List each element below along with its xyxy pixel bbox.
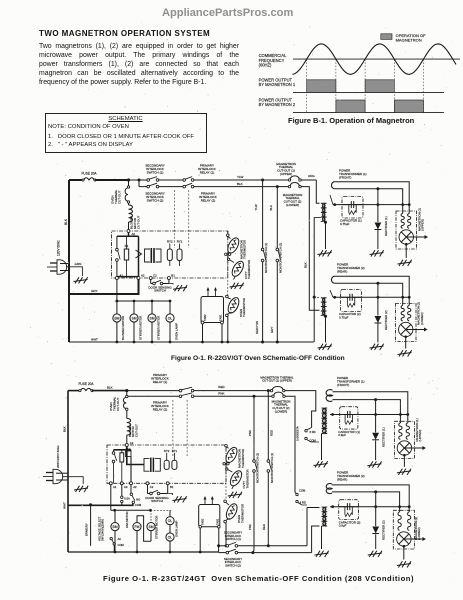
- oven lamp 1 s2: [169, 510, 171, 516]
- svg-text:C2: C2: [153, 274, 157, 278]
- wire: fan box leads to rail: [202, 324, 204, 342]
- figure B-1 axis line: [293, 58, 460, 60]
- node: T1 bottom junction: [324, 221, 327, 224]
- wire: GRN ground lead: [66, 267, 82, 276]
- svg-text:OL: OL: [168, 536, 173, 540]
- wire: rectifier 1 to ground: [377, 230, 379, 249]
- terminal C2 s2: [146, 482, 149, 485]
- svg-text:RELAY (1): RELAY (1): [153, 380, 168, 384]
- wire: down to control unit terminal A2: [128, 222, 130, 230]
- wire: thermistor column to bottom rail: [227, 317, 229, 342]
- wire: rectifier 1 s2 line: [375, 400, 377, 433]
- svg-text:(REAR): (REAR): [337, 269, 347, 273]
- svg-text:(FRONT): (FRONT): [339, 175, 351, 179]
- svg-text:0.75µF: 0.75µF: [340, 222, 350, 226]
- svg-text:BM: BM: [112, 525, 117, 529]
- wire: T2 filament lead lower: [335, 283, 403, 297]
- magnetron thermal cut-out (2) s2: [272, 395, 274, 397]
- ground: chassis ground at plug: [74, 277, 88, 283]
- figure O-1 (R-23GT/24GT) caption: [103, 574, 414, 583]
- dashed linkage relay 1 to RY coil: [174, 190, 176, 248]
- wire: A3 lead with sub-fuse: [121, 485, 123, 496]
- svg-text:(FRONT): (FRONT): [337, 383, 349, 387]
- wire: T1 s2 primary bottom to ground: [321, 434, 323, 461]
- wire: line 2 to magnetron thermal cutout 2: [277, 186, 288, 188]
- svg-text:THERMISTOR: THERMISTOR: [243, 240, 247, 259]
- magnetron 2 output pulse blocks: [336, 100, 365, 113]
- wire: ORG feed down to T1 primary: [316, 180, 319, 203]
- wire: down to A2 terminal s2: [126, 435, 128, 444]
- wire: bold feed inside control unit: [128, 233, 130, 237]
- wire: A1 down to motor rail: [116, 280, 118, 302]
- svg-text:BLK: BLK: [269, 205, 273, 211]
- svg-text:(LOWER): (LOWER): [420, 312, 424, 325]
- primary interlock relay (1) s2: [179, 389, 182, 392]
- svg-text:(REAR): (REAR): [337, 477, 347, 481]
- resistor in s2 box: [120, 453, 124, 462]
- motor BLOWER MOTOR: [116, 301, 118, 314]
- primary interlock relay (2) s2: [179, 395, 182, 398]
- schematic note box: [45, 113, 207, 153]
- oven thermistor (cavity): [230, 259, 246, 278]
- svg-text:FAN MOTOR: FAN MOTOR: [125, 511, 129, 528]
- wire: B1 lead down: [168, 280, 170, 284]
- body paragraph: [39, 42, 239, 87]
- svg-text:0.6XNS37A: 0.6XNS37A: [295, 426, 299, 441]
- ground: magnetron 1: [398, 260, 412, 266]
- svg-text:CUT-OUT (1) (UPPER): CUT-OUT (1) (UPPER): [262, 379, 292, 383]
- svg-text:RECTIFIER (1): RECTIFIER (1): [384, 216, 388, 236]
- terminal C2: [149, 277, 152, 280]
- svg-text:PNK: PNK: [218, 392, 224, 396]
- wire: column to rail s2: [225, 523, 227, 546]
- svg-text:RY1: RY1: [177, 240, 183, 244]
- svg-text:A2: A2: [141, 274, 145, 278]
- wire: rail1-up joins coil top s2: [307, 507, 320, 509]
- wire: line 1 to wire2 branch node: [129, 179, 140, 181]
- svg-text:MONITOR SWITCH (1): MONITOR SWITCH (1): [264, 243, 268, 273]
- node: s2 thermal branch: [125, 389, 128, 392]
- svg-text:RECTIFIER (2): RECTIFIER (2): [384, 310, 388, 330]
- transformer T2 s2 filament curl: [326, 484, 332, 494]
- oven lamp 2 s2: [169, 525, 171, 533]
- wire: s2 line1 to relay 1: [127, 390, 180, 392]
- terminal A1 s2: [109, 482, 112, 485]
- wire: monitor line B to rail 1: [267, 472, 269, 546]
- svg-text:(LOWER): (LOWER): [275, 409, 288, 413]
- control unit box s2 (dash-dot): [107, 445, 226, 483]
- svg-text:SH1: SH1: [126, 447, 132, 451]
- svg-text:OVEN LAMP: OVEN LAMP: [174, 323, 178, 340]
- wire: line 2 to secondary interlock switch 2: [139, 186, 147, 188]
- svg-text:ORG: ORG: [308, 174, 316, 178]
- control unit box (dash-dot): [112, 231, 228, 278]
- svg-text:WHT: WHT: [63, 502, 67, 509]
- svg-text:BLK: BLK: [107, 385, 113, 389]
- surge arrester zigzag: [136, 250, 142, 258]
- svg-text:208V/240V 60Hz: 208V/240V 60Hz: [56, 445, 60, 468]
- dashed linkage s2 relay2: [186, 400, 188, 457]
- svg-text:RY1: RY1: [172, 449, 178, 453]
- wire: left rail BLK: [68, 180, 70, 342]
- svg-text:0.9µF: 0.9µF: [338, 433, 346, 437]
- wire: magnetron 1 s2 ground lead: [403, 455, 405, 467]
- wire: T2 to ground: [325, 316, 327, 342]
- svg-text:TAB2: TAB2: [203, 314, 207, 321]
- ground: transformer 2 s2: [315, 551, 329, 557]
- ground: magnetron 2 s2: [397, 561, 411, 567]
- svg-text:SM: SM: [149, 317, 154, 321]
- wire: oven thermal cutout branch: [128, 180, 130, 186]
- wire: rectifier 1 line: [377, 189, 379, 222]
- wire: thermistor column: [227, 231, 229, 237]
- svg-text:SWITCH (2): SWITCH (2): [225, 563, 241, 567]
- wire: voltage select branch down: [90, 505, 92, 546]
- svg-text:MONITOR SWITCH (2): MONITOR SWITCH (2): [278, 243, 282, 273]
- ground: plug ground s2: [74, 486, 88, 492]
- svg-text:COM: COM: [299, 489, 306, 493]
- ground: transformer 1: [318, 250, 332, 256]
- svg-text:BLK: BLK: [304, 262, 308, 268]
- svg-text:PNK: PNK: [248, 524, 252, 530]
- motor STIRRER MOTOR s2: [150, 510, 152, 522]
- secondary interlock switch (1): [147, 179, 150, 182]
- wire: bold feed s2 box: [126, 447, 128, 450]
- wire: rectifier 2 s2 line: [375, 492, 377, 526]
- wire: rectifier 2 line: [377, 283, 379, 315]
- svg-text:CUT-OUT: CUT-OUT: [117, 191, 121, 204]
- wire: plug to rail: [60, 263, 69, 265]
- svg-text:OL: OL: [168, 317, 173, 321]
- svg-text:FM: FM: [135, 525, 140, 529]
- svg-text:SWITCH: SWITCH: [151, 499, 163, 503]
- wire: rail 2 up to T2 coil: [312, 526, 320, 553]
- plug P1 s2: [53, 469, 63, 483]
- svg-text:OL: OL: [168, 519, 173, 523]
- wire: T2 s2 primary bottom to ground: [321, 526, 323, 549]
- wire: filament lead lower to magnetron 1: [335, 189, 403, 205]
- rectifier (1) diode: [375, 223, 382, 230]
- svg-text:WHT: WHT: [91, 338, 98, 342]
- wire: main bottom rail s2: [68, 551, 219, 553]
- blower motor thermal cut-out coil: [129, 205, 133, 222]
- node: rectifier 1 s2 junction: [374, 398, 377, 401]
- wire: T2 secondary top lead: [330, 290, 333, 297]
- ground: transformer 2: [318, 344, 332, 350]
- ground: magnetron 1 s2: [397, 469, 411, 475]
- door sensing switch s2: [148, 493, 150, 495]
- monitor switch (2) s2: [253, 460, 256, 463]
- motor STIRRER MOTOR: [151, 301, 153, 314]
- blower thermal coil s2: [127, 418, 131, 435]
- oven thermistor s2: [228, 469, 244, 488]
- svg-text:RECTIFIER (1): RECTIFIER (1): [382, 427, 386, 447]
- oven thermistor lower: [226, 296, 241, 315]
- magnetron 1 output baseline: [293, 91, 444, 93]
- svg-text:CUT-OUT: CUT-OUT: [136, 216, 140, 229]
- node: s2 monitor line A branch: [253, 395, 256, 398]
- node: junction oven thermal cutout branch: [127, 178, 130, 181]
- wire: s2 thermal column: [126, 391, 128, 396]
- wire: T1 to ground: [325, 222, 327, 249]
- svg-text:RELAY (2): RELAY (2): [201, 199, 216, 203]
- wire: tap to T2 primary top: [314, 296, 319, 299]
- svg-text:FUSE 20A: FUSE 20A: [81, 172, 97, 176]
- magnetron (2) (lower): [396, 304, 417, 342]
- ground: door sensing switch: [169, 284, 173, 285]
- wire: monitor line B s2 (RED): [267, 391, 269, 460]
- wire: C2 lead down: [150, 280, 152, 284]
- terminal A2 top: [127, 230, 130, 233]
- fuse FUSE 20A: [82, 179, 84, 181]
- node: rectifier 1 junction: [376, 187, 379, 190]
- wire: magnetron 2 s2 ground lead: [403, 546, 405, 559]
- figure B-1 caption: [288, 116, 414, 125]
- fan motor assembly box: [201, 297, 224, 323]
- svg-text:CUT-OUT: CUT-OUT: [116, 398, 120, 411]
- wire: left rail s2: [67, 391, 69, 552]
- magnetron thermistor s2: [224, 446, 240, 465]
- wire: filament lines into magnetron 1: [402, 205, 404, 214]
- motor STIRRER MOTOR: [133, 301, 135, 314]
- wire: A2 bottom branch s2: [130, 457, 132, 484]
- svg-text:THERMISTOR: THERMISTOR: [240, 504, 244, 523]
- svg-text:NO: NO: [136, 498, 140, 502]
- ground: transformer 1 s2: [314, 461, 328, 467]
- node: rectifier 2 junction: [376, 282, 379, 285]
- node: T2 primary tap: [313, 296, 316, 299]
- wire: s2 line1 to thermal branch: [92, 390, 127, 392]
- svg-text:0.75µF: 0.75µF: [339, 316, 349, 320]
- wire: T2 s2 filament lower lead: [332, 492, 400, 507]
- transformer T2 s2 primary winding: [322, 507, 327, 526]
- wire: fan box to rail s2: [199, 528, 201, 552]
- secondary interlock switch (2): [147, 185, 150, 188]
- ground: rectifier 1 s2: [367, 461, 381, 467]
- capacitor C1 assembly: [342, 197, 363, 219]
- wire: monitor line A to rail 2: [253, 472, 254, 552]
- cook relay contacts NO/COM: [130, 485, 132, 493]
- magnetron (1) (upper): [396, 211, 417, 249]
- svg-text:AC: AC: [118, 537, 122, 541]
- figure O-1 (R-22GV/GT) caption: [171, 355, 345, 362]
- wire: series bridge FM-SM: [137, 516, 151, 542]
- svg-text:TAB2: TAB2: [201, 518, 205, 525]
- wire: T2 filament lead upper: [335, 276, 410, 297]
- svg-text:A2: A2: [130, 441, 134, 445]
- wire: line 1 cutout1 to transformer 1: [301, 179, 316, 181]
- low voltage transformer s2 box: [144, 458, 150, 471]
- svg-text:SW (240V)(208V): SW (240V)(208V): [101, 519, 105, 541]
- wire: branch down to line 2: [138, 180, 140, 187]
- wire: top line 1 from rail to fuse: [69, 179, 83, 181]
- primary interlock relay (1) contacts: [183, 179, 186, 182]
- svg-text:GRY: GRY: [91, 289, 98, 293]
- terminal A2 bottom: [137, 277, 140, 280]
- wire: magnetron 1 cathode to ground: [405, 244, 407, 258]
- capacitor C1 s2 assembly: [340, 407, 358, 429]
- transformer T1 s2 filament curl: [326, 390, 332, 402]
- svg-text:COM: COM: [135, 503, 142, 507]
- relay switch contacts in control unit: [116, 248, 119, 251]
- motor FAN MOTOR s2: [133, 523, 141, 531]
- wire: rail 1 continues: [238, 545, 307, 547]
- wire: line 1 fuse to junction: [95, 179, 129, 181]
- wire: GRY return from A2 to left rail: [69, 280, 139, 295]
- dashed linkage s2 relay1: [172, 400, 174, 457]
- svg-text:C2: C2: [150, 485, 154, 489]
- svg-text:THERMISTOR: THERMISTOR: [241, 449, 245, 468]
- lower thermistor s2: [224, 502, 239, 521]
- svg-text:BLOWER MOTOR: BLOWER MOTOR: [121, 316, 125, 340]
- component SH1 in s2 box: [125, 451, 131, 457]
- wire: left branch to relay switch: [116, 236, 118, 248]
- svg-text:B1: B1: [170, 485, 174, 489]
- wire: series line down to rail/T2: [313, 218, 315, 343]
- wire: motor feed rail: [117, 300, 170, 302]
- svg-text:RELAY (2): RELAY (2): [153, 408, 168, 412]
- wire: T1 secondary top lead: [330, 195, 333, 205]
- svg-text:OVEN LAMP: OVEN LAMP: [174, 521, 178, 537]
- primary interlock relay (2) contacts: [183, 185, 186, 188]
- wire: A1 to motor rail s2: [110, 485, 112, 511]
- svg-text:SWITCH (1): SWITCH (1): [225, 537, 241, 541]
- svg-text:BLK: BLK: [63, 426, 67, 432]
- wire: rail 1 up to T2 area: [306, 508, 308, 546]
- node: voltage select branch: [89, 503, 92, 506]
- svg-text:(LOWER): (LOWER): [417, 527, 421, 540]
- terminal B1 s2: [166, 482, 169, 485]
- svg-text:RY2: RY2: [164, 449, 170, 453]
- wire: s2 line2 to monitor A branch: [194, 395, 254, 397]
- svg-text:SM: SM: [131, 317, 136, 321]
- wire: rail 2 continues: [238, 552, 312, 554]
- svg-text:STIRRER MOTOR: STIRRER MOTOR: [156, 316, 160, 340]
- transformer T2 filament winding curl: [331, 276, 334, 283]
- svg-text:B1: B1: [171, 274, 175, 278]
- figure B-1 sine wave (commercial frequency): [293, 44, 457, 74]
- wire: rectifier 1 s2 ground lead: [375, 441, 377, 461]
- svg-text:(UPPER): (UPPER): [421, 219, 425, 231]
- relay switch contacts s2 box: [113, 450, 115, 452]
- svg-text:RED: RED: [262, 524, 266, 530]
- node: wire 2 branch: [138, 179, 141, 182]
- transformer T1 primary winding: [321, 203, 325, 221]
- svg-text:RECTIFIER (2): RECTIFIER (2): [382, 520, 386, 540]
- transformer T1 s2 primary winding: [322, 408, 327, 434]
- svg-text:FUSE 20A: FUSE 20A: [78, 382, 94, 386]
- svg-text:(60HZ): (60HZ): [259, 63, 272, 68]
- svg-text:MAGNETRON: MAGNETRON: [396, 37, 422, 42]
- node: s2 monitor line B branch: [267, 389, 270, 392]
- wire: line 1 to magnetron thermal cutout 1: [263, 179, 289, 181]
- transformer T2 primary winding: [321, 298, 325, 316]
- wire: line 2 sw2 to relay2: [159, 186, 183, 188]
- wire: HV line 2: [333, 296, 409, 298]
- wire: cutout to blower thermal coil: [128, 203, 130, 205]
- wire: line 2 down to transformer 2 (BLK): [301, 187, 319, 311]
- wire: GRN ground lead s2: [62, 477, 83, 484]
- svg-text:BY MAGNETRON 2: BY MAGNETRON 2: [259, 102, 296, 107]
- door sensing switch: [151, 283, 153, 285]
- magnetron thermal cut-out (2) (lower): [288, 185, 290, 187]
- rectifier (1) s2 diode: [372, 433, 379, 440]
- wire: line 1 sw1 to relay1: [159, 179, 183, 181]
- svg-text:BRN/GRY: BRN/GRY: [85, 523, 89, 536]
- monitor switch (1) s2: [267, 460, 270, 463]
- wire: motor rail s2: [115, 509, 151, 511]
- svg-text:BM: BM: [114, 317, 119, 321]
- section title: [39, 29, 210, 38]
- svg-text:GRN: GRN: [75, 262, 82, 266]
- ground: rectifier 2: [370, 344, 384, 350]
- oven thermal cut-out: [127, 186, 129, 188]
- wire: T2 s2 filament upper lead: [332, 485, 409, 507]
- scan noise speckles: [166, 105, 169, 108]
- dashed linkage relay 2 to RY coil: [188, 190, 190, 248]
- svg-text:6 RD: 6 RD: [310, 430, 316, 434]
- wire: bold branch to A2 bottom: [138, 236, 140, 277]
- wire: s2 line2 to T2 tap feed: [285, 396, 295, 492]
- wire: B1 down s2: [167, 485, 169, 494]
- site header AppliancePartsPros.com: [162, 7, 293, 19]
- svg-text:RELAY (1): RELAY (1): [200, 171, 215, 175]
- svg-text:STIRRER MOTOR: STIRRER MOTOR: [138, 316, 142, 340]
- motor BLOWER MOTOR s2: [114, 510, 116, 522]
- wire: s2 line1 to T1 tap feed: [285, 391, 316, 428]
- svg-text:(UPPER): (UPPER): [280, 172, 292, 176]
- svg-text:COM: COM: [118, 543, 125, 547]
- transformer T1 filament winding curl: [332, 182, 335, 189]
- secondary interlock switch (1) s2: [219, 545, 226, 547]
- secondary interlock switch (2) s2: [219, 552, 226, 554]
- wire: filament into magnetron 2 s2: [399, 507, 401, 512]
- svg-text:(LOWER): (LOWER): [286, 203, 299, 207]
- wire: HV line y=204.6: [333, 204, 409, 206]
- svg-text:GRY: GRY: [270, 327, 274, 333]
- rectifier (2) s2 diode: [372, 527, 379, 534]
- wire: plug to rail s2: [56, 472, 68, 474]
- wire: filament lead upper to magnetron 1: [335, 182, 410, 205]
- ground: rectifier 1: [370, 250, 384, 256]
- terminal A1: [115, 277, 118, 280]
- wire: magnetron 2 cathode to ground: [405, 337, 407, 349]
- tap selector switch T1: [305, 430, 307, 432]
- node: monitor switch 1 branch: [261, 179, 264, 182]
- ground: rectifier 2 s2: [368, 551, 382, 557]
- wire: T1 primary bottom-left to series line: [314, 217, 321, 219]
- svg-text:RED: RED: [269, 430, 273, 436]
- svg-text:YLW: YLW: [237, 175, 243, 179]
- svg-text:A1: A1: [120, 274, 124, 278]
- fan motor assembly box s2: [199, 505, 220, 527]
- ground: door sensing s2: [168, 494, 173, 496]
- terminal B1: [167, 277, 170, 280]
- terminal A2 top s2: [125, 444, 128, 447]
- wire: bottom rail: [69, 341, 314, 343]
- wire: filament into magnetron 1 s2: [399, 415, 401, 424]
- svg-text:120V 60Hz: 120V 60Hz: [57, 240, 61, 256]
- ground: oven thermistor s2: [228, 492, 242, 498]
- wire: monitor switch 2 line: [276, 187, 278, 249]
- svg-text:CUT-OUT: CUT-OUT: [134, 424, 138, 437]
- wire: s2 filament lower lead: [333, 400, 401, 415]
- wire: between cutout and coil s2: [126, 411, 128, 419]
- low voltage transformer in control unit: [145, 249, 151, 262]
- wire: column dashed s2: [225, 465, 227, 500]
- wire: HV line 2 s2: [330, 506, 409, 508]
- wire: monitor switch 1 line: [262, 180, 264, 248]
